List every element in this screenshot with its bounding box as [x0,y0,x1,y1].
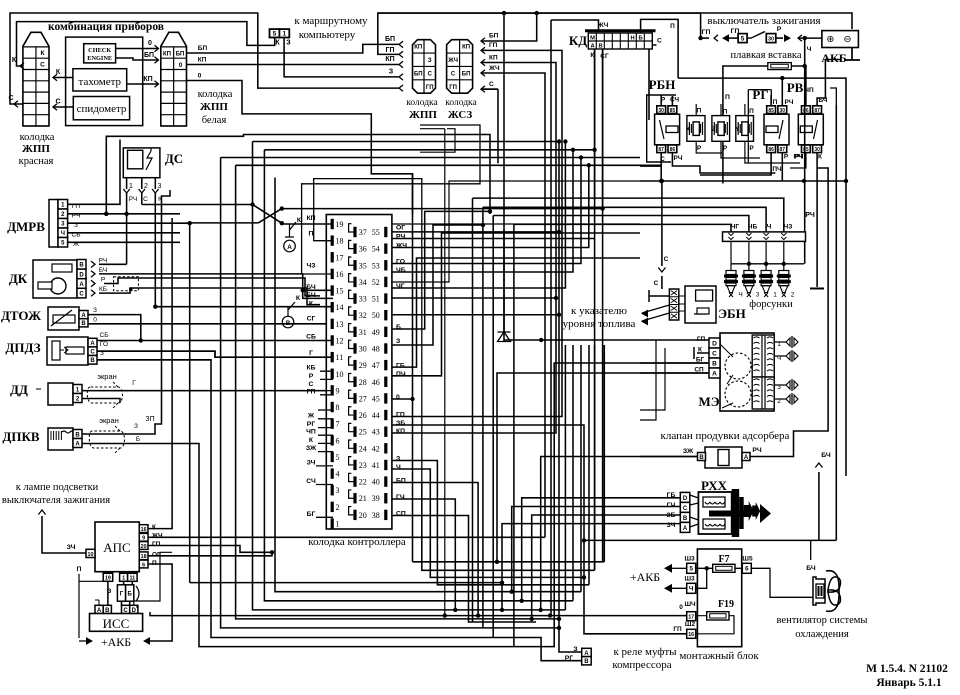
wire cascade x235 to row618 [236,165,559,619]
svg-text:РБН: РБН [649,77,676,92]
svg-text:Ш3: Ш3 [685,576,696,583]
controller pins 35 53 [353,260,356,270]
wire DMRV pin2 RCh [68,213,180,215]
wire X P up [696,104,722,153]
controller pin 11 [331,352,334,362]
svg-text:П: П [309,231,314,238]
wire SP row pin38 cascade [392,516,536,623]
svg-text:20: 20 [141,544,147,550]
wire RG 87 down [781,153,783,181]
svg-text:П: П [697,108,702,115]
controller pin 6 [331,435,334,445]
injector rail connector [723,232,806,242]
svg-text:Б: Б [128,591,133,597]
svg-text:ЖЧ: ЖЧ [488,65,500,72]
svg-text:выключатель зажигания: выключатель зажигания [707,15,820,27]
wire ZhSZ BP [481,38,485,44]
svg-text:М 1.5.4. N 21102: М 1.5.4. N 21102 [866,663,948,675]
svg-text:9: 9 [336,386,340,395]
svg-text:К: К [818,154,822,161]
svg-text:П: П [749,108,754,115]
svg-text:С: С [712,350,717,357]
svg-text:ЖПП: ЖПП [200,101,228,113]
svg-text:ДК: ДК [9,271,28,286]
wire KD right C down [649,45,657,120]
ME coil top [752,335,774,377]
connector ZhSZ [447,40,473,93]
svg-text:ГП: ГП [152,541,161,548]
svg-text:РЧ: РЧ [795,154,804,161]
svg-text:компьютеру: компьютеру [299,29,356,41]
svg-text:З: З [396,456,400,463]
svg-text:ЖЧ: ЖЧ [395,243,407,250]
diode element Y [736,116,754,142]
svg-text:Р: Р [784,154,789,161]
svg-text:5: 5 [273,31,277,38]
svg-text:ЖСЗ: ЖСЗ [448,109,473,121]
wire route computer pin1 Z [284,38,399,77]
svg-text:Ч: Ч [396,464,401,471]
svg-text:3: 3 [756,292,760,299]
ME ground K [694,347,709,359]
riser x565 row609 to y345 [564,345,566,610]
svg-text:48: 48 [372,344,380,353]
wire OG row to x559 [392,231,559,233]
svg-text:АПС: АПС [103,540,130,555]
controller pin 10 [331,369,334,379]
svg-text:БП: БП [144,52,154,59]
svg-text:ЖЧ: ЖЧ [447,58,458,64]
svg-text:В: В [599,44,603,50]
svg-text:30: 30 [814,147,820,153]
svg-text:10: 10 [336,370,344,379]
svg-text:КП: КП [396,428,405,435]
wire DK BCh [99,274,303,288]
svg-text:29: 29 [359,361,367,370]
wire x559 vertical to compressor relay A [559,142,582,653]
speedometer box [73,97,129,120]
svg-text:34: 34 [359,278,367,287]
svg-text:ЭБН: ЭБН [718,306,746,321]
svg-text:3: 3 [336,486,340,495]
controller pins 34 52 [353,277,356,287]
right vertical BCh x836 [835,105,837,540]
wire y222.9 from x190 [190,223,259,583]
DS pins 1 2 3 [126,178,128,189]
wire APS K up [148,218,172,529]
svg-text:D: D [712,340,717,347]
controller pins 20 38 [353,510,356,520]
wire white connector KP to route computer [187,64,400,66]
svg-text:Ш5: Ш5 [742,556,753,563]
wire DS pin3 K down [154,193,156,307]
connector ZhPP small [413,40,436,93]
svg-text:РЧ: РЧ [396,234,406,241]
svg-text:ПЧ: ПЧ [772,166,782,173]
wire row561 to riser x604 [413,561,605,563]
svg-text:МЭ: МЭ [698,394,719,409]
svg-text:Ч: Ч [807,46,812,53]
svg-text:С: С [489,81,494,88]
svg-text:ГП: ГП [307,388,316,395]
junction dots on DMRV RCh wire [104,212,108,216]
shield dashed oval DD [87,381,122,409]
svg-text:СГ: СГ [307,316,316,323]
wire valve ZZh [640,456,698,458]
controller pins 31 49 [353,327,356,337]
wire y157 horizontal [221,157,640,159]
svg-text:6: 6 [142,562,145,568]
svg-text:4: 4 [336,470,340,479]
svg-text:16: 16 [688,632,694,638]
svg-text:ЧЗ: ЧЗ [784,224,793,231]
svg-text:компрессора: компрессора [612,659,671,671]
controller pins 21 39 [353,493,356,503]
svg-text:Б: Б [136,436,140,443]
svg-text:51: 51 [372,295,380,304]
wire red-connector K loop to route computer pin 5 [17,22,275,66]
svg-text:С: С [55,99,60,106]
svg-text:З: З [389,69,394,76]
svg-text:М: М [590,36,595,42]
riser x594 row570 to y345 [594,345,596,570]
wire Z row pin48 [392,225,483,345]
svg-text:X: X [686,127,690,133]
wire BCh x836 top hook [830,88,836,105]
svg-text:К: К [12,57,17,64]
svg-text:Р: Р [777,26,782,33]
svg-text:С: С [8,95,13,102]
svg-text:БЧ: БЧ [99,267,107,274]
svg-text:52: 52 [372,278,380,287]
ignition module ME [720,333,774,411]
svg-text:Y: Y [735,127,739,133]
svg-text:ГП: ГП [386,47,395,54]
CHECK ENGINE lamp [84,44,116,63]
wire ME B BG [640,362,709,364]
wire ZhCh row up x588 [392,165,589,247]
svg-text:26: 26 [359,411,367,420]
wire Sh3-Ch arrow [672,568,707,588]
svg-text:форсунки: форсунки [749,299,793,310]
wire APS 19 down [107,581,109,605]
svg-text:Б: Б [396,324,401,331]
svg-text:колодка: колодка [198,89,233,100]
wire RG 85 up [770,95,772,106]
wire KD ZhCh up to x551 [551,20,599,31]
wire RBN pin85 up [671,96,673,106]
svg-text:вентилятор системы: вентилятор системы [777,615,868,626]
svg-text:ЖПП: ЖПП [409,109,437,121]
controller pin 7 [331,418,334,428]
wire montazh17 row [150,612,687,616]
controller pin 16 [331,269,334,279]
svg-text:ГЧ: ГЧ [667,502,676,509]
svg-text:1: 1 [336,520,340,529]
svg-text:БП: БП [462,71,471,77]
wire purge valve riser x540 [541,457,698,610]
svg-text:5: 5 [741,36,745,43]
RXX body [690,495,699,527]
wire pin12 SB [141,340,333,342]
wire y141 horizontal to x559 [253,141,560,143]
svg-text:Ч: Ч [767,224,772,231]
wire cascade x199 to ME BG [199,363,709,647]
wire DPDZ C GO [97,351,215,357]
wire APS GP right [148,546,272,553]
controller pin 4 [331,468,334,478]
wire DS C to crossover [142,204,253,206]
svg-text:12: 12 [336,336,344,345]
controller connector box (kolodka kontrollera) [326,215,392,530]
svg-text:В: В [286,320,291,327]
wire y128 ladder [420,128,445,130]
svg-text:F19: F19 [718,599,734,610]
wire cascade x264 to row600 [264,150,573,601]
wire RXX GB riser x521 [522,498,681,601]
injectors (forsunki) [730,264,732,271]
svg-text:СЧ: СЧ [670,97,680,104]
wire ISS D right [134,552,172,605]
svg-text:24: 24 [359,444,367,453]
riser x589 row584 to y345 [588,345,590,585]
wire APS OG right [148,552,272,556]
controller pins 30 48 [353,343,356,353]
transponder coil [117,585,125,601]
wire RBN pin30 up [660,95,662,106]
wire GP row pin44 to ZhSZ [392,50,562,416]
svg-text:14: 14 [336,303,344,312]
svg-text:36: 36 [359,245,367,254]
junction ignition to AKB [803,36,807,40]
svg-text:ЧЗ: ЧЗ [306,262,315,269]
svg-text:РГ: РГ [307,421,316,428]
svg-text:45: 45 [372,394,380,403]
svg-text:РЧ: РЧ [674,155,683,162]
svg-text:Р: Р [697,145,702,152]
svg-text:СП: СП [396,511,406,518]
svg-text:БП: БП [489,33,499,40]
svg-text:ДС: ДС [165,151,183,166]
wire pin9 S GP [82,391,333,395]
wire DD 1 G [82,390,333,392]
wire cascade x252 to row609 [253,142,566,610]
controller pin 3 [331,485,334,495]
wire left relays feed1 [392,223,640,225]
svg-text:ЖЧ: ЖЧ [151,533,163,540]
svg-text:КП: КП [198,57,207,64]
svg-text:3: 3 [158,183,162,190]
wire RBN 86 down RCh [672,153,775,173]
wires to fuel level indicator [642,305,669,313]
svg-text:колодка: колодка [20,132,55,143]
svg-text:2: 2 [791,292,795,299]
svg-text:З: З [396,338,400,345]
svg-text:К: К [152,524,156,531]
svg-text:17: 17 [336,253,344,262]
test point A [285,222,296,237]
svg-text:ENGINE: ENGINE [87,55,112,62]
wire KD V down SG [602,49,604,210]
wire pin8 Zh [318,409,333,411]
svg-text:В: В [90,358,95,364]
svg-text:БП: БП [414,71,423,77]
svg-text:28: 28 [359,378,367,387]
wires pins 7 6 5 4 3 1 left stubs [318,419,333,452]
svg-text:30: 30 [359,344,367,353]
svg-text:ШЧ: ШЧ [684,601,696,608]
svg-text:ДПДЗ: ДПДЗ [5,340,40,355]
svg-text:КП: КП [385,56,394,63]
svg-text:37: 37 [359,228,367,237]
svg-text:22: 22 [359,478,367,487]
ME coil bottom [752,377,774,409]
svg-text:П: П [725,94,730,101]
svg-text:5: 5 [689,566,693,573]
wire DK R [104,278,320,296]
wire DMRV RCh up long feed [106,135,490,215]
svg-text:23: 23 [359,461,367,470]
svg-text:А: А [712,370,717,377]
ISS connector cells [95,605,103,613]
wire RXX ZCh riser x502 [502,524,680,610]
controller pin 12 [331,335,334,345]
wire ZhSZ GP [481,47,485,53]
svg-text:17: 17 [688,615,694,621]
top line y13 [378,13,701,38]
wire DS pin2 C down [141,193,143,205]
injector wire verticals down [472,198,474,622]
wire APS ZhCh right [148,536,545,538]
wire GCh row pin39 cascade [392,499,455,610]
svg-text:5: 5 [336,453,340,462]
svg-text:В: В [712,360,717,367]
svg-text:С: С [654,280,659,287]
wire BCh pin15 [303,290,333,298]
tachometer box [73,69,127,91]
controller pins 33 51 [353,293,356,303]
svg-text:Январь 5.1.1: Январь 5.1.1 [876,677,941,689]
svg-text:СЧ: СЧ [306,478,316,485]
svg-text:С: С [79,292,84,298]
wire KD B cell P wire [641,19,679,78]
svg-text:колодка: колодка [445,98,477,108]
svg-text:31: 31 [359,328,367,337]
svg-text:Ч: Ч [738,292,742,299]
riser x573 row600 to y345 [572,345,574,601]
svg-text:БП: БП [396,478,406,485]
wire APS 11 down [130,581,133,605]
svg-text:КП: КП [163,52,171,58]
controller pins 37 55 [353,227,356,237]
svg-text:40: 40 [372,478,380,487]
svg-text:54: 54 [372,245,380,254]
svg-text:7: 7 [336,420,340,429]
svg-text:41: 41 [372,461,380,470]
wire B row pin49 [392,211,490,329]
svg-text:БЧ: БЧ [806,565,816,572]
wire red-connector C loop around left edge [10,13,399,104]
controller pins 26 44 [353,410,356,420]
wire BP row x421 part [422,483,595,571]
svg-text:Г: Г [309,350,313,357]
wire KD K vertical to row570 [594,49,596,570]
wire y149 horizontal [264,149,594,151]
wire ZhSZ ZhCh vertical to APS row [481,73,545,537]
svg-text:18: 18 [141,554,147,560]
riser x581 row591 to y345 [580,345,582,592]
wire pin19 KP [282,223,333,225]
svg-text:П: П [773,99,778,106]
wire RG 30 up [781,79,783,106]
battery AKB [822,31,859,48]
controller pin 15 [331,285,334,295]
svg-text:47: 47 [372,361,380,370]
svg-text:В: В [79,263,84,269]
KD connector [585,29,656,32]
svg-text:К: К [56,69,61,76]
svg-text:+АКБ: +АКБ [630,570,660,584]
svg-text:Ш3: Ш3 [685,556,696,563]
wire ME SP from row561 [497,373,709,562]
svg-text:87: 87 [658,147,664,153]
svg-text:З: З [93,307,97,314]
svg-text:А: А [287,244,292,251]
svg-text:БП: БП [385,36,395,43]
wire CHECK ENGINE BP to white connector [116,58,159,60]
svg-text:экран: экран [97,372,117,381]
wire ChB row up x573 [392,150,573,272]
svg-text:К: К [41,50,45,57]
svg-text:С: С [451,71,456,77]
controller pin 1 [331,518,334,528]
controller pins 36 54 [353,243,356,253]
wire DD 2 [82,399,120,404]
svg-text:СГ: СГ [600,53,609,60]
svg-text:экран: экран [99,416,119,425]
wire x444 ladder down [444,129,446,616]
wire RCh x804 to injectors [804,66,806,264]
svg-text:13: 13 [336,320,344,329]
wire KD M/A down K [594,49,596,200]
svg-text:П: П [670,23,675,30]
svg-text:0: 0 [148,40,152,47]
svg-text:ДМРВ: ДМРВ [7,219,45,234]
svg-text:16: 16 [336,270,344,279]
controller pin 17 [331,252,334,262]
svg-text:В: В [584,659,589,665]
instrument cluster box (kombinatsiya priborov) [66,37,143,126]
svg-text:Р: Р [723,145,728,152]
svg-text:49: 49 [372,328,380,337]
svg-text:6: 6 [745,566,749,573]
svg-text:2: 2 [144,183,148,190]
svg-text:Р: Р [749,145,754,152]
svg-text:42: 42 [372,444,380,453]
svg-text:55: 55 [372,228,380,237]
wire GO row up x581 [392,158,581,264]
wire DTOZh B 0 [88,323,333,325]
svg-text:ЖПП: ЖПП [22,143,50,155]
fuel pump module EBN [669,289,678,320]
svg-text:ГП: ГП [673,626,682,633]
wire DK KB [99,288,320,305]
svg-text:35: 35 [359,261,367,270]
wire speedometer C from red connector [53,106,73,108]
svg-text:КП: КП [462,45,470,51]
controller pins 22 40 [353,476,356,486]
svg-text:0: 0 [396,394,400,401]
